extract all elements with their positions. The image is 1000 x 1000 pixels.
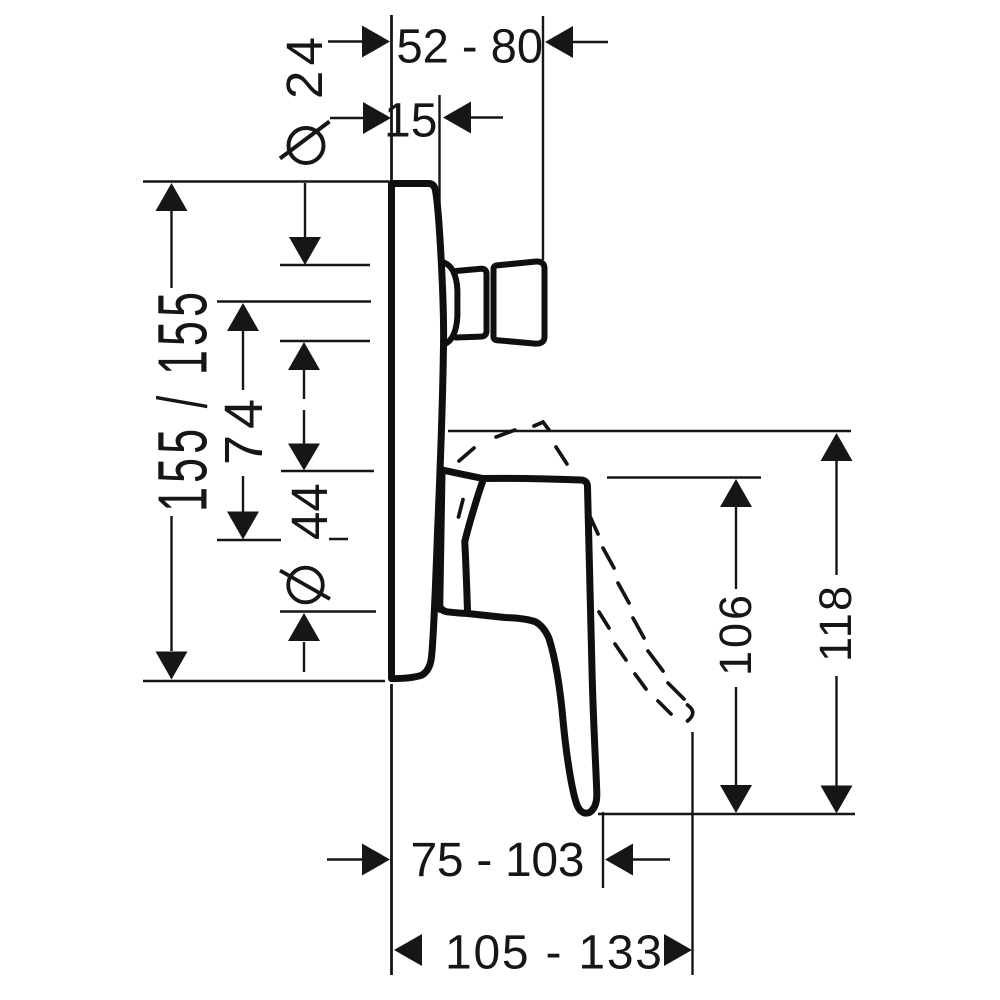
dimension 118 label	[810, 586, 861, 662]
dimension 106 label	[710, 595, 761, 676]
dimension 75-103 label	[411, 834, 585, 887]
dimension 155/155 label	[145, 292, 222, 512]
svg-text:15: 15	[384, 95, 437, 148]
dimension 44 lower arrow	[288, 613, 320, 672]
lever hub front edge	[465, 479, 484, 611]
escutcheon plate outline	[392, 184, 444, 679]
dimension Ø24 lower arrow	[288, 342, 320, 399]
tick knob stem top	[280, 264, 370, 266]
dimension 74 line	[227, 303, 259, 540]
lever hub bottom edge	[439, 602, 468, 614]
dimension 105-133 label	[445, 927, 662, 980]
dimension 106 line	[720, 479, 752, 813]
wall line (upper segment)	[390, 15, 393, 181]
dimension 105-133 left arrow	[394, 934, 422, 966]
tick lever axis left	[217, 539, 281, 541]
svg-text:106: 106	[710, 595, 761, 676]
lever hub top edge	[440, 470, 483, 479]
dimension 52-80 label	[397, 21, 544, 74]
extension line dashed tip vertical	[691, 732, 693, 975]
dimension 155/155 line	[156, 183, 188, 680]
svg-text:52 - 80: 52 - 80	[397, 21, 544, 74]
extension line for 15 right	[438, 95, 440, 263]
extension line plate bottom	[143, 680, 385, 682]
svg-text:105 - 133: 105 - 133	[445, 927, 662, 980]
dashed lever right edge	[588, 512, 684, 699]
dimension 75-103 right arrow	[605, 844, 670, 876]
tick knob axis	[217, 300, 371, 302]
tick lever axis right	[329, 538, 348, 540]
dimension 15 right arrow	[443, 102, 503, 134]
dashed lever tip	[688, 705, 693, 721]
lever handle outline	[468, 478, 597, 813]
svg-text:118: 118	[810, 586, 861, 662]
dimension Ø24 label	[276, 37, 333, 99]
dimension 75-103 left arrow	[327, 844, 390, 876]
dashed lever top edge	[459, 422, 567, 464]
dimension Ø24 upper arrow	[289, 183, 321, 265]
dimension 44 upper arrow	[288, 410, 320, 471]
knob washer on plate face	[444, 263, 457, 345]
svg-text:155 / 155: 155 / 155	[145, 292, 222, 512]
extension line lever top (118)	[448, 430, 851, 432]
dimension 15 label	[384, 95, 437, 148]
svg-text:44: 44	[281, 483, 338, 540]
svg-text:75 - 103: 75 - 103	[411, 834, 585, 887]
dimension 52-80 right arrow	[545, 26, 608, 58]
lever hub back edge	[440, 472, 442, 610]
dimension 52-80 left arrow	[328, 26, 390, 58]
dimension 44 label	[281, 483, 338, 540]
dimension Ø24 diameter symbol	[280, 122, 330, 164]
tick hub top	[281, 470, 374, 472]
knob stem	[456, 269, 487, 338]
dimension 44 diameter symbol	[280, 568, 330, 603]
extension line lever tip bottom	[598, 813, 855, 815]
dimension 74 label	[214, 399, 274, 465]
knob head	[494, 262, 545, 344]
tick knob stem bottom	[280, 340, 370, 342]
dashed lever bottom edge	[459, 500, 672, 715]
extension line plate top	[143, 180, 389, 182]
extension line solid tip vertical	[602, 812, 604, 888]
dimension 15 left arrow	[330, 102, 391, 134]
wall line (lower segment)	[390, 684, 393, 975]
extension line for 52-80 right	[542, 16, 544, 260]
dimension 105-133 right arrow	[664, 934, 692, 966]
extension line lever top (106)	[607, 476, 761, 478]
dimension 118 line	[821, 433, 853, 814]
tick hub bottom	[280, 610, 376, 612]
